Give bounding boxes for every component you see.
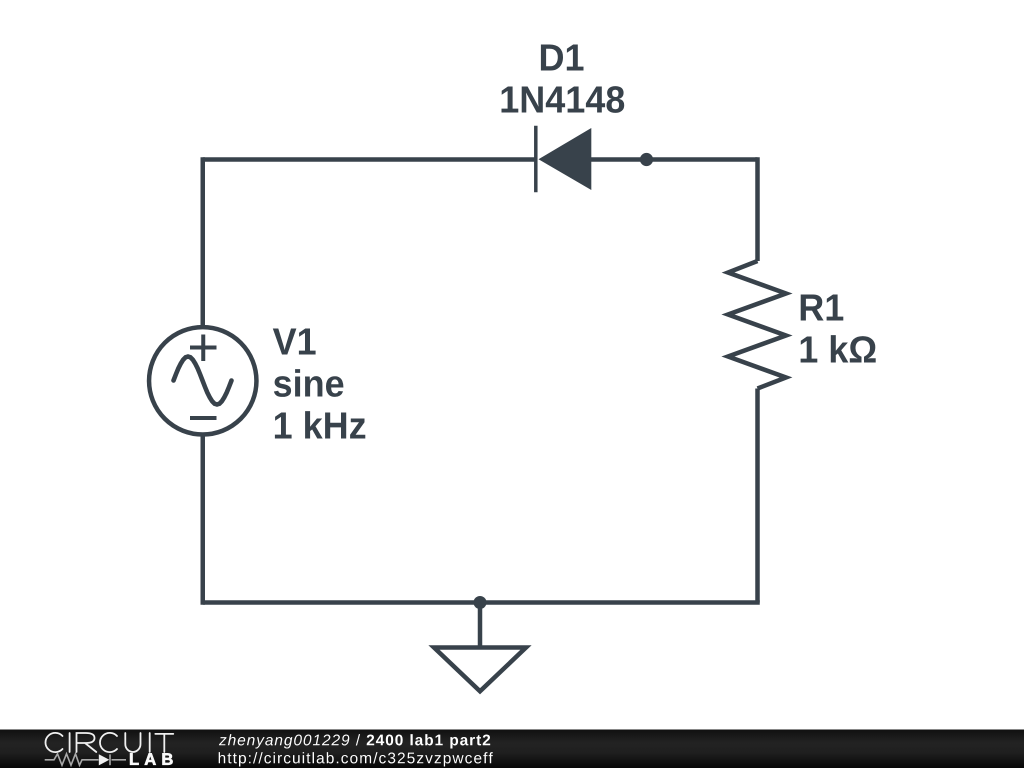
V1 sine wave	[174, 357, 232, 405]
label V1	[273, 329, 316, 355]
node B dot (ground net)	[474, 596, 487, 609]
value label 1 kOhm	[801, 335, 876, 362]
wire bottom (corner to V1-)	[203, 600, 760, 605]
wire left lower (bottom corner to V1 bottom pin)	[201, 433, 206, 605]
footer title user name	[219, 734, 349, 748]
wire top-left (V1+ to D1 cathode)	[203, 157, 536, 162]
CircuitLab logo wordmark CIRCUIT	[45, 733, 173, 752]
label D1	[541, 45, 584, 71]
wire right upper (corner to R1 top)	[755, 157, 760, 261]
diode D1 cathode bar	[534, 126, 538, 192]
value label 1 kHz	[275, 411, 365, 438]
resistor R1 zigzag	[728, 261, 786, 389]
V1 minus sign	[190, 416, 217, 420]
CircuitLab logo LAB	[130, 753, 173, 764]
wire top-right (D1 anode to top-right corner)	[591, 157, 758, 162]
footer title separator	[356, 734, 360, 745]
footer bar	[0, 730, 1024, 768]
ground symbol triangle	[434, 648, 526, 692]
footer title schematic name	[367, 734, 491, 748]
ground stub wire	[478, 603, 483, 648]
V1 plus sign	[190, 335, 217, 362]
value label sine	[274, 369, 344, 397]
wire left upper (V1 top pin to top-left corner)	[201, 157, 206, 328]
CircuitLab logo mini-schematic	[45, 754, 126, 765]
wire right lower (R1 bottom to corner)	[755, 389, 760, 603]
node A dot (D1 anode / R1 net)	[640, 153, 653, 166]
diode D1 triangle	[539, 128, 592, 190]
value label 1N4148	[502, 86, 625, 113]
voltage source V1 circle	[149, 327, 256, 434]
label R1	[801, 295, 844, 321]
footer url text	[219, 752, 493, 766]
CircuitLab logo mini diode	[99, 754, 110, 765]
